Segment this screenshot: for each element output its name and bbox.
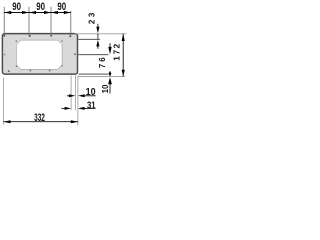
svg-text:90: 90 xyxy=(57,1,66,13)
svg-text:90: 90 xyxy=(12,1,21,13)
svg-text:23: 23 xyxy=(87,12,96,24)
svg-text:10: 10 xyxy=(86,86,96,98)
svg-text:76: 76 xyxy=(98,57,107,69)
svg-text:90: 90 xyxy=(36,1,45,13)
svg-text:332: 332 xyxy=(34,112,45,124)
svg-text:31: 31 xyxy=(87,100,96,112)
svg-text:172: 172 xyxy=(112,43,122,60)
svg-text:10: 10 xyxy=(101,84,110,93)
